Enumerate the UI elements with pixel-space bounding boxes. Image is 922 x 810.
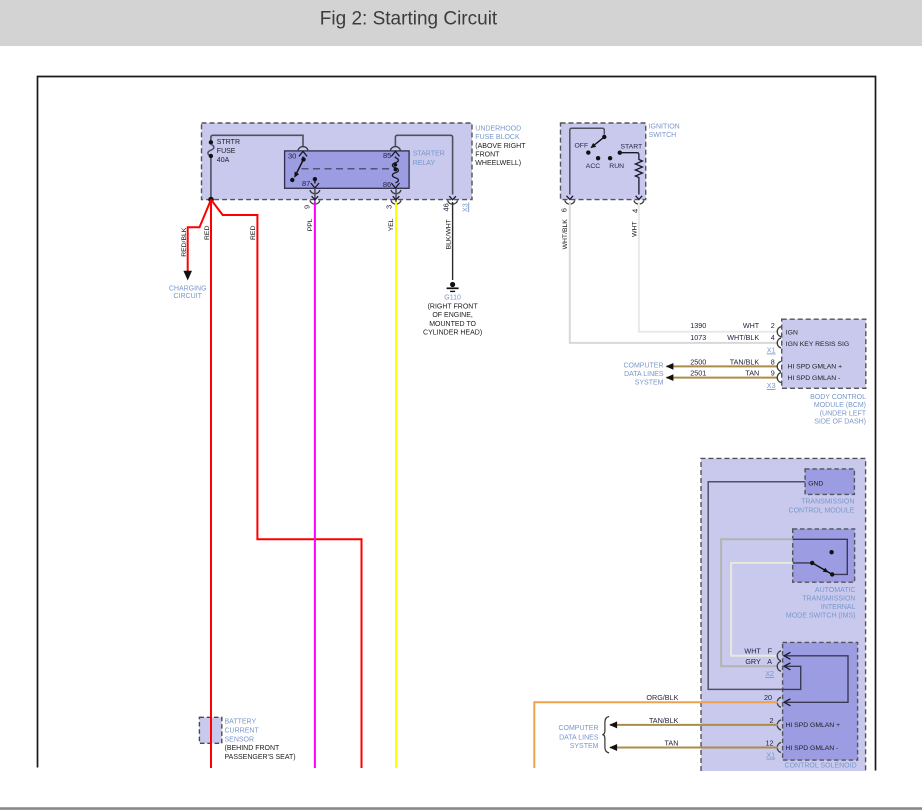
wire GRY IMS to solenoid pinA xyxy=(721,539,793,666)
computer data lines system label (BCM) xyxy=(623,363,663,387)
svg-text:TAN: TAN xyxy=(745,369,759,378)
svg-text:X1: X1 xyxy=(767,345,776,354)
IMS internal wire path xyxy=(793,539,848,574)
bottom scrollbar divider xyxy=(0,807,922,809)
ignition internal wire pin6 xyxy=(570,128,605,194)
svg-text:HI SPD GMLAN +: HI SPD GMLAN + xyxy=(788,364,843,371)
brace for computer data lines xyxy=(602,717,609,753)
svg-text:X3: X3 xyxy=(767,381,776,390)
svg-text:ORG/BLK: ORG/BLK xyxy=(646,693,678,702)
svg-text:WHT: WHT xyxy=(743,321,760,330)
TAN left arrowhead xyxy=(666,374,674,381)
svg-text:HI SPD GMLAN -: HI SPD GMLAN - xyxy=(786,745,839,752)
svg-text:AUTOMATIC: AUTOMATIC xyxy=(815,587,856,594)
svg-text:PASSENGER'S SEAT): PASSENGER'S SEAT) xyxy=(225,754,296,761)
svg-text:OFF: OFF xyxy=(575,142,589,149)
computer data lines system label (solenoid) xyxy=(558,725,598,750)
svg-text:(BEHIND FRONT: (BEHIND FRONT xyxy=(225,745,281,752)
svg-text:FUSE BLOCK: FUSE BLOCK xyxy=(475,134,520,141)
svg-text:A: A xyxy=(767,657,772,666)
solenoid pinF arrowhead xyxy=(784,652,790,659)
starter relay U-relay box xyxy=(285,151,410,188)
svg-text:MODE SWITCH (IMS): MODE SWITCH (IMS) xyxy=(786,613,856,620)
svg-text:9: 9 xyxy=(771,369,775,378)
svg-text:IGNITION: IGNITION xyxy=(649,124,680,131)
ignition pin4 exit arrow xyxy=(636,196,643,200)
svg-text:46: 46 xyxy=(441,203,450,211)
svg-text:40A: 40A xyxy=(217,157,230,164)
solenoid gnd row junction xyxy=(783,688,786,690)
ignition switch label xyxy=(649,124,680,139)
svg-text:WHT/BLK: WHT/BLK xyxy=(727,333,759,342)
svg-text:SIDE OF DASH): SIDE OF DASH) xyxy=(814,419,866,426)
relay coil 85-86 xyxy=(391,151,399,188)
svg-text:X3: X3 xyxy=(460,203,469,212)
svg-text:RED: RED xyxy=(204,226,211,240)
GND box xyxy=(805,469,854,495)
solenoid pinA connector arc xyxy=(777,661,781,671)
svg-text:STARTER: STARTER xyxy=(413,151,445,158)
TAN lower arrowhead xyxy=(609,744,617,751)
wire TAN/BLK to BCM pin8 xyxy=(667,365,779,367)
svg-text:GRY: GRY xyxy=(745,657,761,666)
svg-text:FRONT: FRONT xyxy=(475,151,500,158)
svg-text:SYSTEM: SYSTEM xyxy=(635,380,664,387)
BCM pin9 connector arc xyxy=(777,373,781,383)
TAN row labels xyxy=(665,738,774,747)
fuse label xyxy=(217,139,240,164)
body control module BCM box xyxy=(782,319,866,388)
IMS contact dot xyxy=(830,572,834,576)
svg-text:YEL: YEL xyxy=(388,218,395,231)
svg-text:87: 87 xyxy=(302,179,310,188)
title bar xyxy=(0,0,922,46)
svg-text:WHT/BLK: WHT/BLK xyxy=(562,219,569,250)
svg-text:DATA LINES: DATA LINES xyxy=(559,734,599,741)
wire YEL xyxy=(395,202,397,768)
control solenoid box xyxy=(783,642,858,760)
svg-text:8: 8 xyxy=(771,357,775,366)
relay pin 30 connector arc xyxy=(298,147,308,151)
START contact dot xyxy=(618,151,622,155)
OFF contact dot xyxy=(586,150,590,154)
svg-text:2: 2 xyxy=(770,716,774,725)
svg-text:X1: X1 xyxy=(766,750,775,759)
svg-text:1390: 1390 xyxy=(690,321,706,330)
ignition blade arrowhead xyxy=(590,143,596,148)
fuse STRTR 40A xyxy=(208,140,214,200)
relay pin 85 connector arc xyxy=(390,147,400,151)
IMS label xyxy=(786,587,856,620)
solenoid pin2 connector arc xyxy=(777,720,781,730)
BCM row1 labels 1390 WHT 2 xyxy=(690,321,775,330)
svg-text:TAN/BLK: TAN/BLK xyxy=(730,357,760,366)
svg-text:2500: 2500 xyxy=(690,357,706,366)
svg-text:12: 12 xyxy=(766,738,774,747)
svg-text:WHEELWELL): WHEELWELL) xyxy=(475,160,521,167)
wire fuse to relay pin 30 xyxy=(211,135,303,146)
ignition pin 4 connector arc xyxy=(634,200,644,204)
wire TAN/BLK to solenoid pin2 xyxy=(610,724,778,726)
relay pin 87 exit connector arcs + arrow xyxy=(310,188,320,204)
relay pin 87 dot xyxy=(313,177,317,181)
BCM pin8 connector arc xyxy=(777,361,781,371)
svg-text:TAN: TAN xyxy=(665,738,679,747)
bottom scrollbar xyxy=(0,808,922,810)
wire RED right branch xyxy=(211,200,362,768)
svg-text:3: 3 xyxy=(384,205,393,209)
IMS pivot dot xyxy=(810,561,814,565)
svg-text:20: 20 xyxy=(764,693,772,702)
svg-text:X2: X2 xyxy=(765,669,774,678)
svg-text:BATTERY: BATTERY xyxy=(225,719,257,726)
IMS blade arrowhead xyxy=(823,568,829,573)
svg-text:CONTROL SOLENOID: CONTROL SOLENOID xyxy=(785,763,857,770)
svg-text:1073: 1073 xyxy=(690,333,706,342)
svg-text:INTERNAL: INTERNAL xyxy=(821,604,856,611)
TAN/BLK left arrowhead xyxy=(666,363,674,370)
charging circuit label xyxy=(169,285,207,300)
BCM row4 labels 2501 TAN 9 xyxy=(690,369,775,378)
svg-text:HI SPD GMLAN +: HI SPD GMLAN + xyxy=(786,722,841,729)
junction node at fuse block bottom xyxy=(208,197,214,203)
solenoid pin12 connector arc xyxy=(777,743,781,753)
svg-text:85: 85 xyxy=(383,151,391,160)
wire BLK/WHT to ground xyxy=(452,202,454,280)
svg-text:STRTR: STRTR xyxy=(217,139,240,146)
IMS box xyxy=(793,529,855,582)
wire WHT ignition to BCM pin2 xyxy=(639,202,778,332)
svg-text:FUSE: FUSE xyxy=(217,148,236,155)
svg-text:9: 9 xyxy=(303,205,312,209)
BCM X3 label xyxy=(767,381,776,390)
ignition switch box xyxy=(561,123,646,200)
svg-text:TAN/BLK: TAN/BLK xyxy=(649,716,679,725)
svg-text:CIRCUIT: CIRCUIT xyxy=(174,293,203,300)
pin 46 exit arrow + connector arc xyxy=(448,196,458,204)
wire RED middle vertical xyxy=(210,200,212,768)
relay actuation dashed line xyxy=(302,168,395,170)
battery current sensor box xyxy=(199,717,221,743)
GRY A row labels xyxy=(745,657,772,666)
svg-text:GND: GND xyxy=(808,480,823,487)
diagram frame border xyxy=(38,77,876,771)
ignition pin6 exit arrow xyxy=(567,196,574,200)
TCM label xyxy=(789,499,855,515)
svg-text:ACC: ACC xyxy=(586,163,600,170)
svg-text:BODY CONTROL: BODY CONTROL xyxy=(810,394,866,401)
WHT F row labels xyxy=(744,647,772,656)
GND wire to solenoid xyxy=(708,482,805,690)
svg-text:G110: G110 xyxy=(444,295,461,302)
BCM label xyxy=(810,394,867,426)
relay pin 87 arrow down xyxy=(311,179,319,188)
svg-text:IGN KEY RESIS SIG: IGN KEY RESIS SIG xyxy=(786,341,849,348)
svg-text:TRANSMISSION: TRANSMISSION xyxy=(801,499,854,506)
ignition pin 6 connector arc xyxy=(565,200,575,204)
IMS blade xyxy=(812,563,832,575)
BCM pin4 connector arc xyxy=(777,338,781,348)
relay switch contact dot xyxy=(290,178,294,182)
BCM pin names xyxy=(786,330,849,383)
ground G110 symbol xyxy=(447,282,459,292)
relay switch blade arrowhead xyxy=(294,172,299,178)
relay pin 86 exit connector arcs + arrow xyxy=(391,188,401,204)
svg-text:COMPUTER: COMPUTER xyxy=(558,725,598,732)
svg-text:MODULE (BCM): MODULE (BCM) xyxy=(814,402,866,409)
relay pin 30 arrow xyxy=(299,151,307,159)
svg-text:30: 30 xyxy=(288,151,296,160)
svg-text:CYLINDER HEAD): CYLINDER HEAD) xyxy=(423,329,482,336)
wire WHT IMS to solenoid pinF xyxy=(731,563,793,656)
BCM pin2 connector arc xyxy=(777,327,781,337)
IMS upper contact dot xyxy=(829,550,833,554)
ignition START wire + resistor xyxy=(620,153,643,195)
svg-text:2: 2 xyxy=(771,321,775,330)
solenoid pinF connector arc xyxy=(777,651,781,661)
solenoid X1 label xyxy=(766,750,775,759)
underhood fuse block label xyxy=(475,125,526,167)
svg-text:(UNDER LEFT: (UNDER LEFT xyxy=(820,410,867,417)
wire RED/BLK to charging circuit xyxy=(188,200,211,271)
svg-text:IGN: IGN xyxy=(786,330,798,337)
fuse block connector X3 label xyxy=(460,203,469,213)
IMS internal wire to pivot xyxy=(793,562,813,564)
relay switch blade xyxy=(297,159,304,173)
svg-text:DATA LINES: DATA LINES xyxy=(624,371,664,378)
wire relay pin 85 to pin 46 exit xyxy=(395,135,452,194)
TAN/BLK lower arrowhead xyxy=(609,721,617,728)
svg-text:6: 6 xyxy=(560,208,569,212)
transmission control module outer box xyxy=(701,458,866,771)
wire RED through sensor xyxy=(210,717,212,745)
svg-text:4: 4 xyxy=(771,333,775,342)
wire PPL xyxy=(314,202,316,768)
wire TAN to BCM pin9 xyxy=(667,377,779,379)
svg-text:RED: RED xyxy=(250,226,257,240)
wire TAN to solenoid pin12 xyxy=(610,747,778,749)
TAN/BLK row labels xyxy=(649,716,774,725)
svg-text:SWITCH: SWITCH xyxy=(649,132,677,139)
svg-text:RED/BLK: RED/BLK xyxy=(181,227,188,257)
solenoid pin20 arrowhead xyxy=(784,699,790,706)
svg-text:(RIGHT FRONT: (RIGHT FRONT xyxy=(428,304,479,311)
ACC contact dot xyxy=(596,156,600,160)
svg-text:COMPUTER: COMPUTER xyxy=(623,363,663,370)
RUN contact dot xyxy=(608,156,612,160)
svg-text:(ABOVE RIGHT: (ABOVE RIGHT xyxy=(475,143,526,150)
ignition switch pivot dot xyxy=(602,135,606,139)
solenoid X2 label xyxy=(765,669,774,678)
svg-text:RELAY: RELAY xyxy=(413,160,436,167)
svg-text:TRANSMISSION: TRANSMISSION xyxy=(802,596,855,603)
svg-text:OF ENGINE,: OF ENGINE, xyxy=(432,312,473,319)
svg-text:2501: 2501 xyxy=(690,369,706,378)
solenoid pin names xyxy=(786,722,841,752)
wire WHT/BLK ignition to BCM pin4 xyxy=(570,202,778,343)
svg-text:BLK/WHT: BLK/WHT xyxy=(445,219,452,249)
relay switch pivot dot xyxy=(301,157,305,161)
BCM X1 label xyxy=(767,345,776,354)
ignition switch blade xyxy=(594,137,604,145)
svg-text:START: START xyxy=(621,143,643,150)
svg-text:MOUNTED TO: MOUNTED TO xyxy=(429,321,476,328)
wire ORG/BLK xyxy=(534,702,778,768)
svg-text:SYSTEM: SYSTEM xyxy=(570,743,599,750)
svg-text:SENSOR: SENSOR xyxy=(225,736,255,743)
battery current sensor label xyxy=(225,719,296,762)
svg-text:PPL: PPL xyxy=(307,218,314,231)
svg-text:WHT: WHT xyxy=(744,647,761,656)
solenoid internal path pinA to gnd row xyxy=(786,666,801,689)
BCM row3 labels 2500 TAN/BLK 8 xyxy=(690,357,775,366)
svg-text:F: F xyxy=(768,647,773,656)
svg-text:86: 86 xyxy=(383,180,391,189)
svg-text:CURRENT: CURRENT xyxy=(225,727,260,734)
svg-text:HI SPD GMLAN -: HI SPD GMLAN - xyxy=(788,375,841,382)
svg-text:CONTROL MODULE: CONTROL MODULE xyxy=(789,507,855,514)
solenoid pinA arrowhead xyxy=(784,663,790,670)
BCM row2 labels 1073 WHT/BLK 4 xyxy=(690,333,775,342)
charging circuit arrowhead xyxy=(183,271,192,281)
svg-text:RUN: RUN xyxy=(609,163,624,170)
solenoid internal path pinF to pin20 xyxy=(786,656,848,703)
starter relay label xyxy=(413,151,445,167)
ground G110 label xyxy=(423,295,482,337)
svg-text:CHARGING: CHARGING xyxy=(169,285,207,292)
svg-text:WHT: WHT xyxy=(631,221,638,236)
svg-text:Fig 2: Starting Circuit: Fig 2: Starting Circuit xyxy=(320,9,498,30)
underhood fuse block box xyxy=(202,123,473,200)
svg-text:UNDERHOOD: UNDERHOOD xyxy=(475,125,521,132)
solenoid pin20 connector arc xyxy=(777,697,781,707)
